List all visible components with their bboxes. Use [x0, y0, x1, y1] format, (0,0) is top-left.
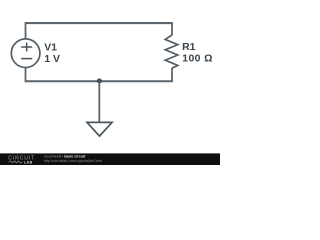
wire V1 top lead: [25, 22, 27, 39]
wire bottom horizontal: [26, 80, 173, 82]
watermark bar: [0, 153, 220, 165]
svg-text:100 Ω: 100 Ω: [182, 53, 213, 64]
svg-text:http://circuitlab.com/c/gadcsi: http://circuitlab.com/c/gadcsijbh7amf: [44, 159, 102, 163]
wire ground stem: [98, 81, 100, 122]
svg-text:1 V: 1 V: [44, 54, 60, 65]
wire V1 bottom lead: [25, 67, 27, 82]
svg-text:LAB: LAB: [24, 161, 33, 165]
ground: [87, 122, 112, 136]
svg-text:oscarheinli / basic circuit: oscarheinli / basic circuit: [44, 155, 86, 159]
logo CircuitLab: [8, 156, 35, 165]
wire R1 bottom lead: [171, 68, 173, 82]
node junction: [97, 79, 102, 84]
wire top horizontal: [26, 22, 173, 24]
voltage source V1: [11, 39, 40, 68]
wire R1 top lead: [171, 22, 173, 35]
svg-text:V1: V1: [44, 42, 57, 53]
resistor R1: [165, 35, 178, 68]
svg-text:R1: R1: [182, 42, 196, 53]
